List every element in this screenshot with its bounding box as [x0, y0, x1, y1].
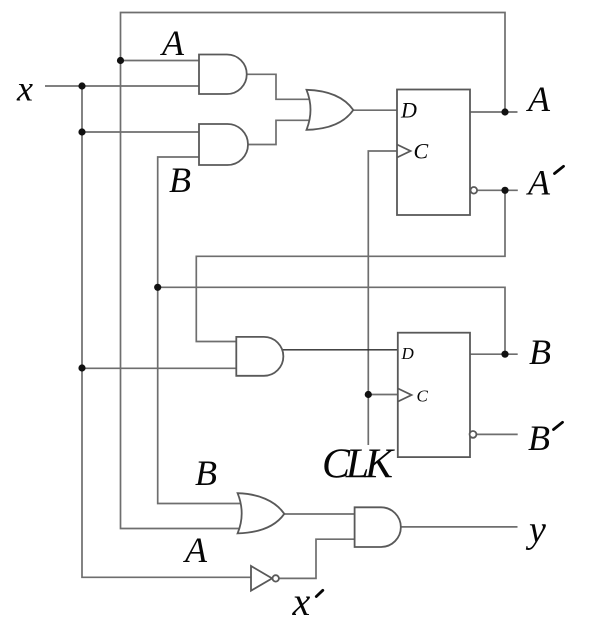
svg-text:y: y	[525, 509, 546, 551]
svg-text:A: A	[526, 79, 551, 119]
svg-text:C: C	[414, 139, 429, 164]
svg-text:B: B	[195, 453, 217, 493]
svg-text:CLK: CLK	[322, 442, 395, 488]
svg-text:D: D	[400, 98, 417, 123]
svg-text:B: B	[529, 332, 551, 372]
svg-text:B: B	[528, 418, 550, 458]
svg-text:D: D	[401, 344, 415, 363]
svg-text:B: B	[169, 160, 191, 200]
svg-text:C: C	[417, 387, 429, 406]
svg-text:A: A	[526, 162, 551, 202]
svg-text:x: x	[292, 579, 311, 624]
svg-text:A: A	[160, 23, 185, 63]
svg-text:x: x	[16, 69, 33, 109]
svg-text:A: A	[183, 530, 208, 570]
